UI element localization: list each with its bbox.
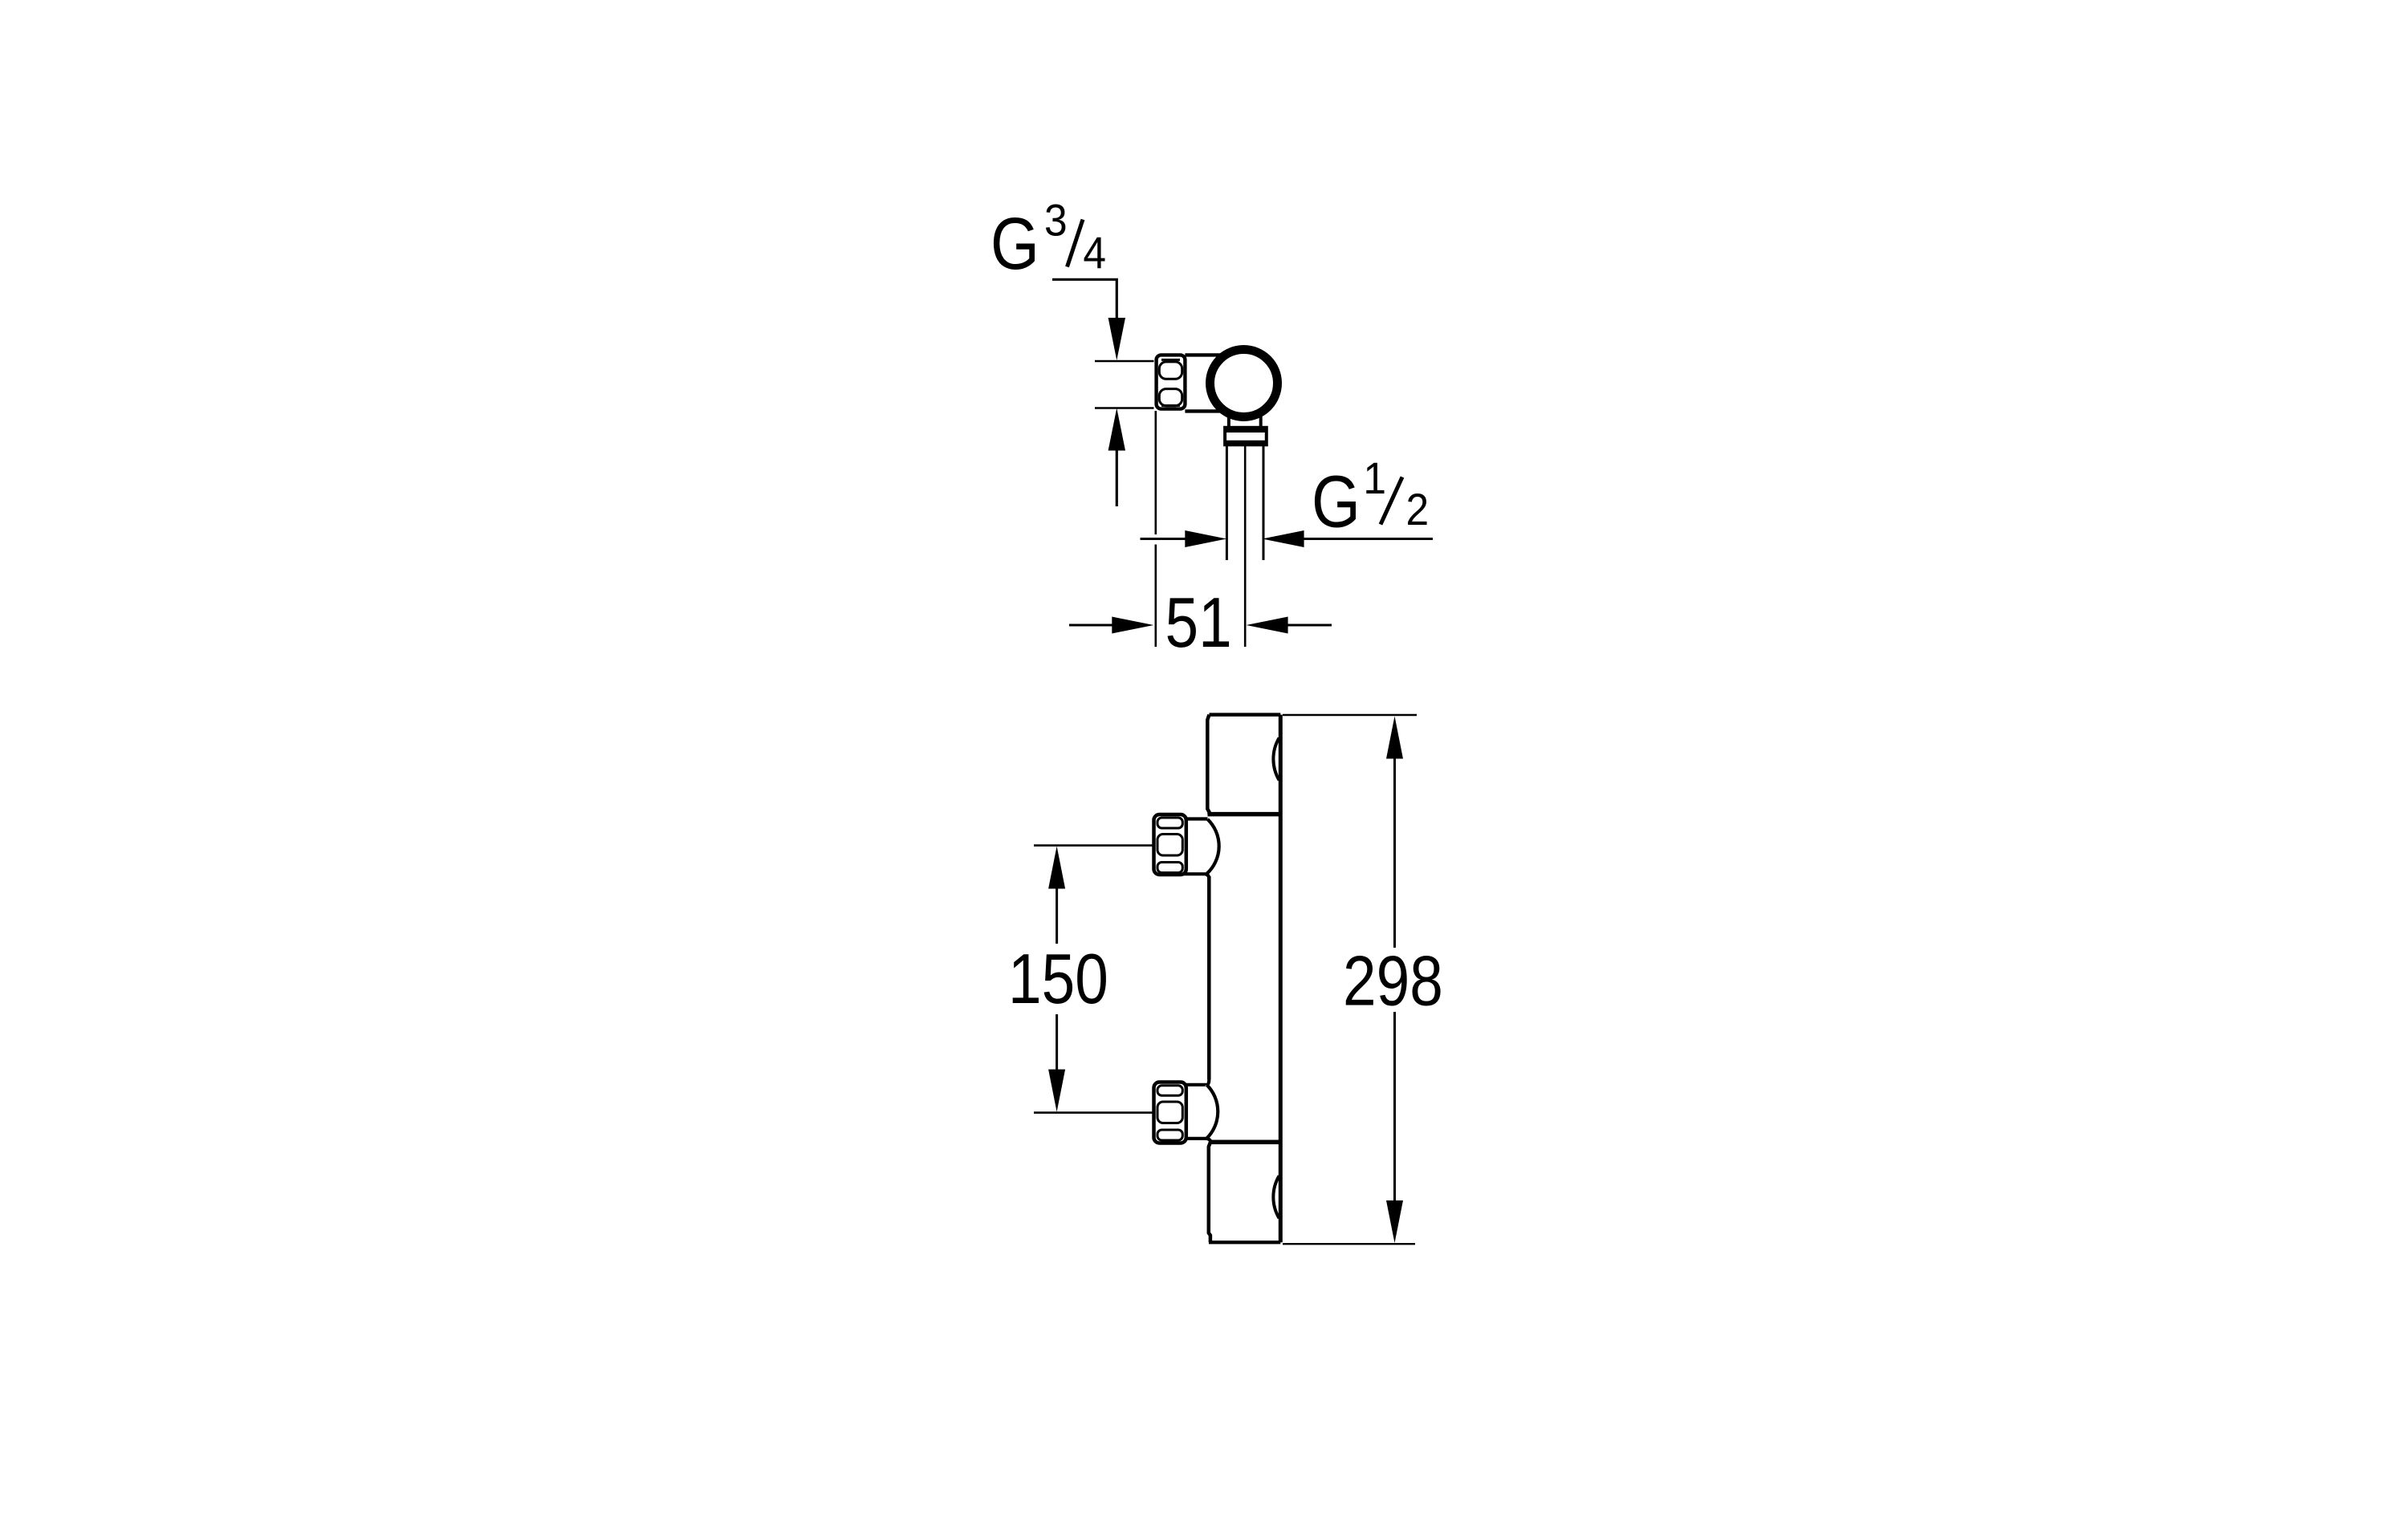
lower wall union crescent at right edge	[1273, 1176, 1279, 1218]
upper inlet nut : bottom facet pill	[1157, 863, 1182, 873]
union nut G3/4 : facet chord top	[1161, 359, 1180, 361]
outlet neck right edge	[1259, 416, 1263, 429]
svg-text:2: 2	[1406, 485, 1430, 534]
outlet flange upper rib	[1225, 428, 1267, 433]
mixer body : left edge bottom section	[1209, 1142, 1210, 1242]
extension line from nut face down (lower part)	[1155, 545, 1157, 648]
lower inlet nut : bottom facet pill	[1157, 1130, 1182, 1140]
dimension 51 : left tail	[1069, 624, 1112, 627]
dimension 150 : upper line segment	[1056, 886, 1058, 944]
valve housing square : top edge	[1185, 353, 1223, 356]
label G 1/2 : fraction slash	[1381, 477, 1402, 525]
lower extension line (nut thread bottom)	[1095, 407, 1154, 409]
union nut G3/4 : upper facet pill	[1159, 362, 1182, 379]
mixer body : right edge	[1279, 715, 1283, 1243]
G 1/2 dimension line left segment	[1141, 538, 1189, 540]
svg-text:51: 51	[1165, 583, 1232, 662]
dimension 51 : right arrowhead	[1247, 617, 1288, 634]
union nut G3/4 : lower facet pill	[1159, 389, 1182, 406]
dimension 51 : left arrowhead	[1112, 617, 1153, 634]
upper inlet nut : top facet pill	[1157, 818, 1182, 828]
shower pipe left line	[1226, 445, 1228, 561]
dimension 298 : lower extension line	[1283, 1243, 1415, 1245]
extension line from nut face down (upper part)	[1155, 411, 1157, 534]
upper inlet boss : top shoulder	[1186, 817, 1208, 820]
lower inlet nut : outer body	[1154, 1082, 1186, 1143]
tail line of up arrowhead	[1116, 448, 1118, 506]
mixer body : divider line below upper section	[1208, 812, 1281, 817]
shower outlet circle (top view)	[1210, 350, 1278, 417]
upper wall union crescent at right edge	[1273, 738, 1279, 781]
dimension 298 : upper extension line	[1283, 714, 1417, 717]
dimension 51 : right tail	[1287, 624, 1332, 627]
svg-text:G: G	[990, 203, 1039, 285]
mixer body : bottom edge	[1209, 1241, 1280, 1244]
mixer body : left edge middle section	[1207, 876, 1211, 1079]
G 1/2 right arrowhead	[1263, 530, 1304, 547]
down arrowhead of G 3/4 leader	[1108, 318, 1125, 360]
label G 3/4 : fraction slash	[1068, 220, 1084, 267]
dimension 150 : lower line segment	[1056, 1014, 1058, 1072]
dimension 298 : upper line segment	[1393, 756, 1396, 948]
upper inlet boss : dome arc	[1207, 819, 1219, 874]
union nut G3/4 : facet chord bottom	[1161, 404, 1180, 407]
svg-text:G: G	[1312, 461, 1361, 543]
leader line for G 3/4	[1052, 279, 1117, 319]
G 1/2 dimension line right segment	[1301, 538, 1433, 540]
svg-text:3: 3	[1044, 196, 1068, 246]
lower inlet nut : top facet pill	[1157, 1086, 1182, 1096]
dimension 150 : down arrowhead	[1048, 1070, 1065, 1112]
dimension 298 : up arrowhead	[1386, 717, 1403, 759]
dimension 298 : lower line segment	[1393, 1012, 1396, 1202]
dimension 150 : lower extension line	[1034, 1111, 1154, 1114]
outlet flange lower rib	[1225, 441, 1267, 445]
pipe axis line	[1244, 445, 1247, 648]
upper extension line (nut thread top)	[1095, 360, 1154, 363]
valve housing square : bottom edge	[1185, 409, 1223, 412]
lower inlet boss : top shoulder	[1186, 1083, 1207, 1087]
G 1/2 left arrowhead	[1185, 530, 1226, 547]
dimension 150 : upper extension line	[1034, 844, 1154, 847]
lower inlet boss : dome arc	[1207, 1085, 1218, 1139]
lower inlet boss : left edge stub above	[1207, 1079, 1210, 1085]
shower pipe right line	[1263, 445, 1265, 561]
mixer body : divider line above bottom section	[1209, 1140, 1280, 1145]
dimension 150 : up arrowhead	[1048, 847, 1065, 889]
mixer body : left edge upper section	[1207, 715, 1209, 814]
union nut G3/4 (top view) : outer body	[1157, 355, 1186, 408]
upper inlet nut : outer body	[1154, 814, 1186, 875]
upper inlet boss : bottom shoulder	[1184, 874, 1210, 879]
lower inlet boss : bottom shoulder	[1186, 1139, 1211, 1143]
outlet neck left edge	[1227, 416, 1230, 429]
up arrowhead below nut	[1108, 408, 1125, 451]
upper inlet nut : middle facet pill	[1157, 835, 1182, 856]
svg-text:150: 150	[1008, 940, 1108, 1018]
svg-text:298: 298	[1343, 942, 1443, 1021]
mixer body (front view) : top edge	[1210, 713, 1281, 717]
svg-text:4: 4	[1083, 228, 1106, 278]
svg-text:1: 1	[1363, 453, 1386, 503]
dimension 298 : down arrowhead	[1386, 1200, 1403, 1243]
lower inlet nut : middle facet pill	[1157, 1102, 1182, 1123]
outlet flange block	[1225, 428, 1267, 445]
